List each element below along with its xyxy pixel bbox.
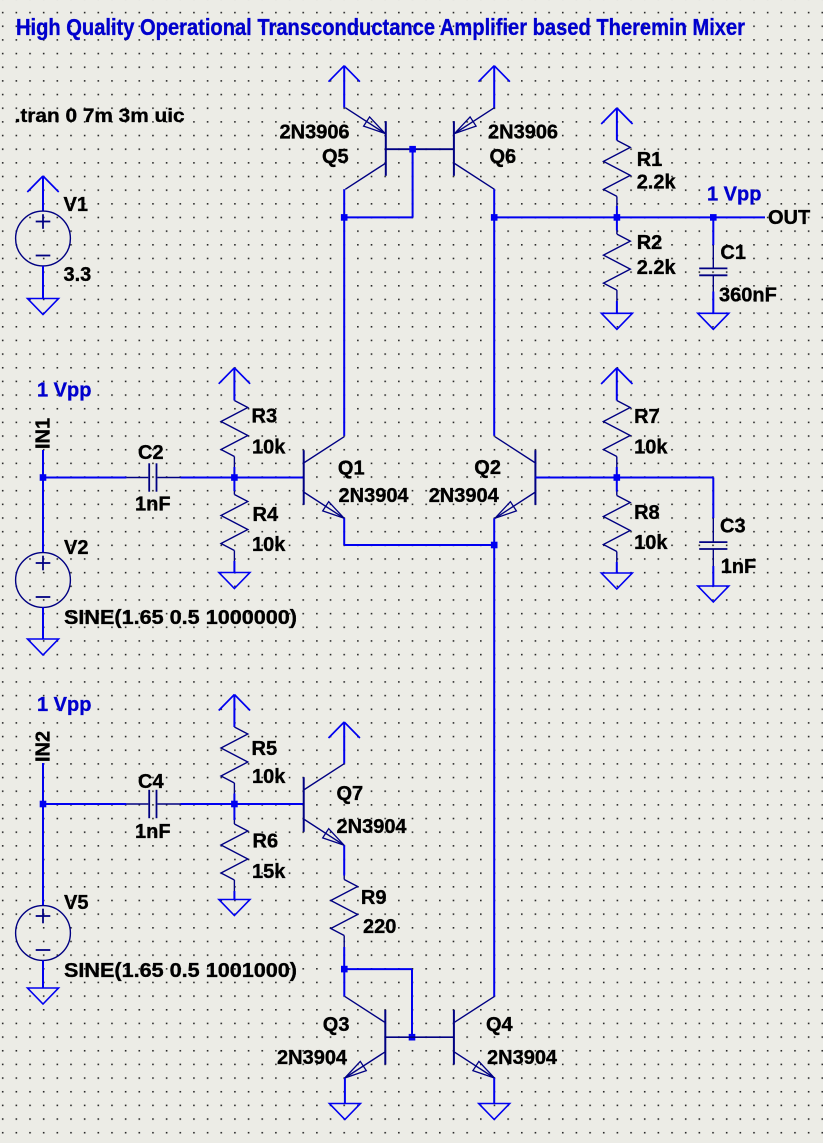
svg-text:2N3904: 2N3904 — [429, 485, 500, 507]
svg-text:R3: R3 — [252, 406, 278, 428]
svg-text:R9: R9 — [361, 887, 387, 909]
svg-text:R6: R6 — [253, 831, 279, 853]
svg-text:R4: R4 — [253, 504, 279, 526]
svg-text:2.2k: 2.2k — [637, 172, 677, 194]
svg-text:R2: R2 — [637, 232, 663, 254]
svg-text:High Quality Operational Trans: High Quality Operational Transconductanc… — [16, 14, 745, 40]
svg-text:R5: R5 — [252, 738, 278, 760]
svg-text:1 Vpp: 1 Vpp — [707, 183, 761, 205]
svg-text:2N3904: 2N3904 — [277, 1047, 348, 1069]
svg-text:15k: 15k — [252, 861, 286, 883]
svg-text:2.2k: 2.2k — [637, 257, 677, 279]
svg-text:1nF: 1nF — [135, 494, 171, 516]
svg-text:10k: 10k — [252, 766, 286, 788]
svg-text:V5: V5 — [64, 892, 88, 914]
svg-text:1nF: 1nF — [721, 556, 757, 578]
svg-text:V2: V2 — [64, 537, 88, 559]
svg-text:Q1: Q1 — [338, 458, 365, 480]
svg-text:Q7: Q7 — [337, 783, 364, 805]
svg-text:360nF: 360nF — [719, 285, 777, 307]
svg-text:.tran 0 7m 3m uic: .tran 0 7m 3m uic — [15, 106, 185, 127]
svg-text:2N3906: 2N3906 — [280, 122, 350, 144]
svg-text:1 Vpp: 1 Vpp — [37, 380, 91, 402]
svg-text:R7: R7 — [634, 406, 660, 428]
svg-text:2N3904: 2N3904 — [487, 1047, 558, 1069]
svg-text:2N3904: 2N3904 — [339, 485, 410, 507]
svg-text:V1: V1 — [64, 194, 88, 216]
svg-text:Q6: Q6 — [490, 146, 517, 168]
svg-text:220: 220 — [363, 916, 396, 938]
svg-text:Q4: Q4 — [486, 1014, 514, 1036]
svg-text:2N3904: 2N3904 — [337, 816, 408, 838]
svg-text:1 Vpp: 1 Vpp — [37, 694, 91, 716]
svg-text:IN2: IN2 — [33, 731, 55, 762]
svg-text:10k: 10k — [252, 534, 286, 556]
svg-text:Q2: Q2 — [474, 457, 501, 479]
svg-text:OUT: OUT — [768, 207, 810, 229]
svg-text:10k: 10k — [252, 437, 286, 459]
svg-text:SINE(1.65 0.5 1001000): SINE(1.65 0.5 1001000) — [64, 960, 297, 982]
svg-text:3.3: 3.3 — [64, 264, 92, 286]
svg-text:IN1: IN1 — [33, 418, 55, 449]
svg-text:C1: C1 — [720, 242, 746, 264]
svg-text:R8: R8 — [634, 502, 660, 524]
svg-text:Q3: Q3 — [323, 1014, 350, 1036]
svg-text:2N3906: 2N3906 — [488, 122, 558, 144]
svg-text:SINE(1.65 0.5 1000000): SINE(1.65 0.5 1000000) — [64, 607, 297, 629]
svg-text:C2: C2 — [138, 442, 164, 464]
svg-text:C3: C3 — [720, 516, 746, 538]
svg-text:10k: 10k — [634, 437, 668, 459]
svg-text:R1: R1 — [637, 149, 663, 171]
svg-text:Q5: Q5 — [322, 146, 349, 168]
svg-text:C4: C4 — [138, 771, 164, 793]
svg-text:1nF: 1nF — [135, 821, 171, 843]
svg-text:10k: 10k — [634, 532, 668, 554]
